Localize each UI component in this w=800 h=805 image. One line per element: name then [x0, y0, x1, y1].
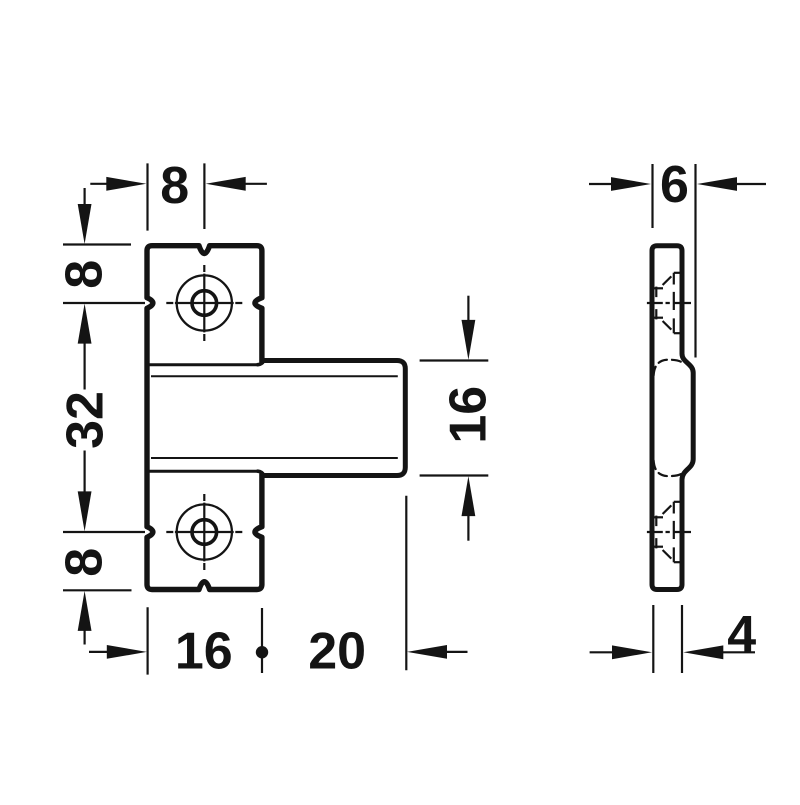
left dim arrow down to top edge — [78, 204, 92, 244]
dim 4 right arrow tail — [723, 651, 756, 653]
upper hole centerline vertical — [203, 265, 205, 341]
dim 16 right tail below — [467, 516, 469, 541]
svg-text:20: 20 — [308, 623, 366, 681]
side upper hole hidden mouth dash bottom — [674, 332, 681, 334]
left dim arrow up to bottom edge — [78, 591, 92, 631]
dim 8 top extension line left — [146, 163, 148, 230]
left ext line lower hole — [63, 531, 145, 533]
dim bottom ext line middle — [261, 608, 263, 673]
lower hole centerline vertical — [203, 494, 205, 570]
side upper hole hidden countersink mouth line — [673, 273, 675, 333]
dim 6 left arrow tail — [589, 183, 612, 185]
side lower hole hidden counterbore vertical — [655, 516, 657, 549]
dim bottom left arrowhead — [107, 645, 147, 659]
left ext line top edge — [63, 243, 131, 245]
left dim 32 line lower — [83, 451, 85, 494]
dim 8 top extension line right — [203, 163, 205, 229]
lower countersink circle — [177, 504, 232, 559]
front view plate outline — [147, 246, 262, 590]
side lower hole hidden cone lower diagonal — [663, 550, 672, 559]
dim 16 right ext line bottom — [420, 474, 489, 476]
dim 16 right arrow up — [462, 476, 476, 516]
side lower hole hidden mouth dash bottom — [674, 561, 681, 563]
dim 4 left arrow tail — [590, 651, 614, 653]
dim 4 ext line right — [681, 605, 683, 673]
side upper hole hidden counterbore dash top — [654, 287, 663, 289]
side upper hole hidden counterbore dash bottom — [654, 317, 663, 319]
side view outline — [652, 246, 693, 590]
svg-text:16: 16 — [440, 386, 498, 444]
arm face line top — [151, 375, 398, 377]
dim bottom right arrow tail — [447, 651, 468, 653]
side lower hole hidden cone upper diagonal — [663, 505, 672, 514]
dim 8 top left arrow tail — [90, 183, 107, 185]
dim 16 right ext line top — [420, 359, 489, 361]
arm junction jog bottom — [258, 471, 264, 475]
upper countersink circle — [177, 275, 232, 330]
lower hole centerline horizontal — [166, 531, 242, 533]
left dim tail above — [83, 188, 85, 205]
dim bottom right arrowhead — [407, 645, 447, 659]
svg-text:8: 8 — [55, 548, 113, 577]
upper hole centerline horizontal — [166, 302, 242, 304]
upper screw hole — [192, 291, 217, 316]
svg-text:32: 32 — [56, 391, 114, 449]
front view arm outline — [263, 361, 405, 476]
dim 8 top left arrowhead — [106, 177, 146, 191]
dim 6 ext line right — [694, 164, 696, 358]
arm-plate junction line bottom — [149, 470, 258, 473]
side lower hole hidden counterbore dash bottom — [654, 546, 663, 548]
side upper hole hidden cone lower diagonal — [663, 321, 672, 330]
hidden arc top transition — [654, 360, 684, 376]
left dim 32 arrow down — [78, 491, 92, 531]
dim 8 top right arrowhead — [206, 177, 246, 191]
arm-plate junction line top — [149, 363, 258, 366]
dim 6 left arrowhead — [611, 177, 651, 191]
dim 6 right arrowhead — [697, 177, 737, 191]
svg-text:6: 6 — [660, 156, 689, 214]
dim 6 right arrow tail — [737, 183, 767, 185]
left dim 32 arrow up — [78, 304, 92, 344]
left ext line bottom edge — [63, 589, 132, 591]
svg-text:16: 16 — [175, 623, 233, 681]
hidden arc bottom transition — [654, 460, 684, 476]
side upper hole hole centerline — [647, 302, 691, 304]
side lower hole hidden counterbore dash top — [654, 516, 663, 518]
dim 4 left arrowhead — [612, 645, 652, 659]
dim 6 ext line left — [651, 164, 653, 228]
svg-text:8: 8 — [55, 260, 113, 289]
left dim 32 line upper — [83, 342, 85, 390]
left dim tail below — [83, 630, 85, 645]
dim bottom ext line right — [405, 496, 407, 671]
side lower hole hidden countersink mouth line — [673, 502, 675, 562]
dim bottom separator dot — [256, 646, 268, 658]
side lower hole hidden mouth dash top — [674, 501, 681, 503]
svg-text:8: 8 — [160, 157, 189, 215]
dim 4 ext line left — [652, 605, 654, 673]
arm junction jog top — [258, 361, 264, 365]
dim bottom ext line left — [147, 607, 149, 674]
lower screw hole — [192, 520, 217, 545]
side upper hole hidden cone upper diagonal — [663, 276, 672, 285]
side lower hole hole centerline — [647, 531, 691, 533]
arm face line bottom — [151, 457, 398, 459]
side upper hole hidden mouth dash top — [674, 272, 681, 274]
dim 8 top right arrow tail — [246, 183, 267, 185]
left ext line upper hole — [63, 302, 145, 304]
svg-text:4: 4 — [727, 606, 756, 664]
side upper hole hidden counterbore vertical — [655, 287, 657, 320]
dim 16 right arrow down — [462, 320, 476, 360]
dim 16 right tail above — [467, 296, 469, 321]
dim bottom left arrow tail — [89, 651, 108, 653]
dim 4 right arrowhead — [683, 645, 723, 659]
